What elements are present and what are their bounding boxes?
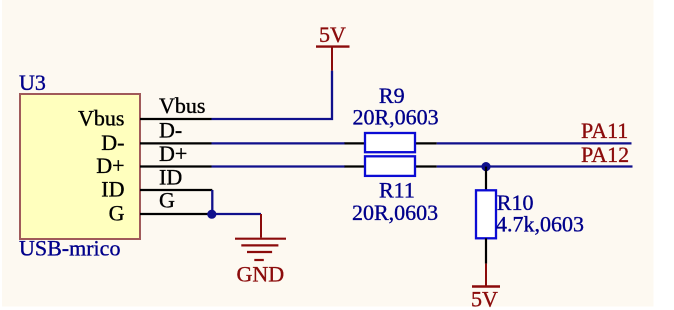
ground bar 3 — [247, 251, 272, 253]
power 5V top: bar — [316, 45, 350, 47]
svg-text:4.7k,0603: 4.7k,0603 — [496, 212, 584, 237]
resistor R10 bottom lead — [485, 238, 487, 263]
svg-text:G: G — [159, 188, 175, 213]
wire Vbus horizontal — [212, 71, 333, 119]
svg-text:PA11: PA11 — [581, 118, 628, 143]
svg-text:Vbus: Vbus — [78, 106, 124, 131]
svg-text:ID: ID — [101, 177, 124, 202]
pin G — [140, 213, 212, 215]
power 5V bottom: bar — [472, 285, 500, 287]
wire D- left segment — [212, 142, 346, 144]
svg-text:20R,0603: 20R,0603 — [352, 200, 438, 225]
resistor R11 body — [365, 156, 415, 176]
svg-text:5V: 5V — [471, 287, 498, 310]
power 5V top: stem — [331, 48, 333, 71]
resistor R9 body — [365, 133, 415, 152]
resistor R9 right lead — [414, 142, 437, 144]
ground bar 1 — [235, 238, 286, 240]
resistor R9 left lead — [345, 142, 367, 144]
svg-text:D-: D- — [159, 117, 182, 142]
svg-text:R11: R11 — [379, 177, 415, 202]
junction dot ID/G — [207, 210, 216, 219]
wire G to ground — [212, 213, 261, 215]
svg-text:5V: 5V — [319, 22, 346, 47]
svg-text:D+: D+ — [96, 153, 124, 178]
svg-text:G: G — [109, 201, 125, 226]
junction dot D+/R10 — [481, 162, 490, 171]
svg-text:USB-mrico: USB-mrico — [19, 236, 120, 261]
power 5V bottom: stem — [485, 264, 487, 286]
svg-text:D-: D- — [101, 130, 124, 155]
resistor R10 body — [476, 190, 496, 238]
wire ID vertical down to G — [211, 190, 213, 214]
pin ID — [140, 189, 212, 191]
svg-text:U3: U3 — [19, 70, 46, 95]
pin D- — [140, 142, 212, 144]
ground bar 2 — [241, 244, 278, 246]
ground bar 4 — [254, 259, 263, 261]
wire D+ left segment — [212, 165, 346, 167]
resistor R10 top lead — [485, 167, 487, 191]
svg-text:Vbus: Vbus — [159, 93, 205, 118]
resistor R11 right lead — [414, 165, 437, 167]
component U3 body — [20, 94, 140, 239]
pin D+ — [140, 165, 212, 167]
wire D+ right segment to PA12 — [437, 165, 633, 167]
wire D- right segment to PA11 — [437, 142, 632, 144]
pin Vbus (U3 pin line) — [140, 118, 212, 120]
svg-text:PA12: PA12 — [581, 142, 629, 167]
ground GND stem — [260, 214, 262, 238]
svg-text:GND: GND — [237, 262, 285, 287]
svg-text:ID: ID — [159, 165, 182, 190]
resistor R11 left lead — [345, 165, 367, 167]
svg-text:D+: D+ — [159, 141, 187, 166]
svg-text:20R,0603: 20R,0603 — [353, 105, 439, 130]
